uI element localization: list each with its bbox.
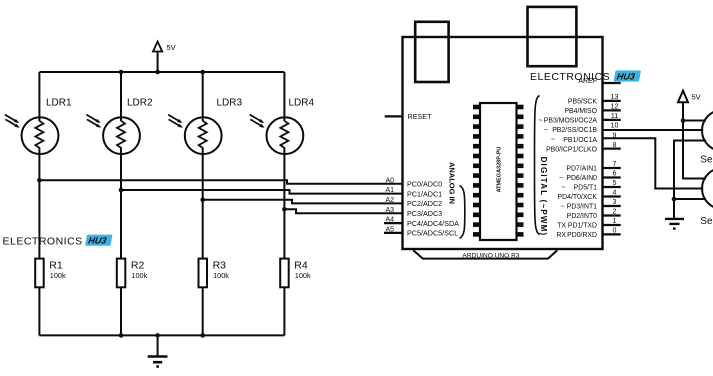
svg-text:PD3/INT1: PD3/INT1: [567, 204, 597, 211]
svg-text:PB1/OC1A: PB1/OC1A: [563, 137, 597, 144]
svg-text:8: 8: [613, 142, 617, 149]
svg-text:DIGITAL (~PWM): DIGITAL (~PWM): [539, 157, 548, 237]
svg-text:ELECTRONICS: ELECTRONICS: [530, 71, 610, 83]
svg-text:4: 4: [613, 190, 617, 197]
svg-text:R1: R1: [49, 260, 63, 272]
svg-text:HU3: HU3: [616, 71, 636, 81]
LDR3: [168, 72, 242, 200]
node junction LDR2/A1: [119, 188, 124, 193]
svg-text:~: ~: [544, 127, 548, 134]
arduino power jack: [528, 7, 577, 66]
watermark electronics hub right: [530, 70, 641, 82]
svg-text:Servo1: Servo1: [700, 155, 713, 166]
arduino U1 body: [403, 37, 603, 249]
svg-text:PD4/T0/XCK: PD4/T0/XCK: [558, 194, 598, 201]
svg-text:PC2/ADC2: PC2/ADC2: [407, 199, 442, 208]
svg-text:LDR2: LDR2: [127, 98, 153, 109]
svg-text:~: ~: [551, 137, 555, 144]
node junction top rail 5V: [155, 70, 160, 75]
svg-text:Servo2: Servo2: [700, 216, 713, 227]
digital bracket: [534, 96, 539, 235]
IC U2 ATMEGA328P-PU: [473, 103, 524, 240]
node junction bottom rail R2: [119, 333, 124, 338]
svg-text:2: 2: [613, 209, 617, 216]
svg-text:R2: R2: [131, 260, 145, 272]
servo motor 2: [702, 168, 713, 209]
svg-text:~: ~: [538, 117, 542, 124]
svg-text:PB5/SCK: PB5/SCK: [568, 99, 598, 106]
node junction LDR4/A3: [282, 207, 287, 212]
svg-text:13: 13: [611, 94, 619, 101]
wire top 5V rail: [39, 71, 284, 73]
node junction servo1 5V: [681, 118, 686, 123]
svg-text:7: 7: [613, 161, 617, 168]
svg-text:PD5/T1: PD5/T1: [574, 185, 598, 192]
node junction bottom rail gnd: [155, 333, 160, 338]
arduino usb connector: [415, 22, 448, 82]
digital pin labels: [538, 99, 597, 240]
svg-text:PD2/INT0: PD2/INT0: [567, 213, 597, 220]
node junction top rail LDR2: [119, 70, 124, 75]
svg-text:100k: 100k: [213, 271, 229, 280]
wire servo1 gnd pin: [674, 141, 706, 219]
svg-text:PB4/MISO: PB4/MISO: [564, 108, 597, 115]
svg-text:PC1/ADC1: PC1/ADC1: [407, 189, 442, 198]
svg-text:1: 1: [613, 218, 617, 225]
resistor R3 100k: [199, 200, 230, 336]
wire pin9 to servo2: [603, 138, 704, 188]
svg-text:PD6/AIN0: PD6/AIN0: [566, 175, 597, 182]
svg-text:5V: 5V: [167, 43, 176, 52]
wire bottom ground rail: [39, 334, 284, 336]
digital pin stubs and numbers: [603, 101, 621, 235]
pin RESET: [385, 112, 432, 121]
svg-text:~: ~: [559, 175, 563, 182]
wire LDR3 to pin A2: [203, 200, 403, 204]
svg-text:A4: A4: [385, 217, 394, 224]
LDR1: [5, 72, 72, 180]
wire 5V to servo1 vcc pin: [683, 120, 706, 122]
svg-text:LDR4: LDR4: [289, 98, 315, 109]
svg-text:A0: A0: [385, 177, 394, 184]
svg-text:A2: A2: [385, 197, 394, 204]
node junction LDR3/A2: [200, 197, 205, 202]
wire servo2 gnd pin: [674, 198, 706, 200]
resistor R1 100k: [35, 180, 66, 335]
svg-text:A1: A1: [385, 187, 394, 194]
LDR4: [250, 72, 315, 209]
svg-text:100k: 100k: [131, 271, 147, 280]
svg-text:ARDUINO UNO R3: ARDUINO UNO R3: [462, 252, 519, 259]
watermark electronics hub left: [3, 235, 113, 248]
pin A4 stub: [384, 222, 403, 224]
wire LDR4 to pin A3: [284, 209, 402, 213]
svg-text:11: 11: [611, 113, 618, 120]
wire 5V down to servo2 vcc pin: [683, 121, 706, 179]
svg-text:PB2/SS/OC1B: PB2/SS/OC1B: [552, 127, 597, 134]
svg-text:PB3/MOSI/OC2A: PB3/MOSI/OC2A: [544, 118, 598, 125]
svg-text:RX: RX: [556, 232, 566, 239]
node junction top rail LDR3: [200, 70, 205, 75]
analog bracket: [460, 186, 465, 239]
svg-text:12: 12: [611, 104, 619, 111]
svg-text:100k: 100k: [295, 271, 311, 280]
svg-text:5V: 5V: [692, 93, 701, 102]
svg-text:HU3: HU3: [88, 236, 108, 246]
node junction servo2 gnd: [672, 197, 677, 202]
power 5V supply left: [153, 42, 176, 73]
svg-text:~: ~: [560, 204, 564, 211]
svg-text:TX: TX: [557, 223, 566, 230]
svg-text:ELECTRONICS: ELECTRONICS: [3, 236, 83, 248]
svg-text:5: 5: [613, 180, 617, 187]
svg-text:PD1/TXD: PD1/TXD: [568, 223, 597, 230]
arduino bottom label plate: [413, 250, 557, 258]
ground right: [665, 219, 684, 229]
svg-text:PB0/ICP1/CLKO: PB0/ICP1/CLKO: [546, 146, 598, 153]
servo motor 1: [702, 110, 713, 151]
svg-text:R3: R3: [213, 260, 227, 272]
svg-text:~: ~: [561, 185, 565, 192]
svg-text:PD7/AIN1: PD7/AIN1: [566, 166, 597, 173]
resistor R4 100k: [280, 209, 311, 335]
svg-text:ATMEGA328P-PU: ATMEGA328P-PU: [497, 147, 503, 193]
wire LDR1 to pin A0: [39, 180, 402, 184]
svg-text:3: 3: [613, 199, 617, 206]
svg-text:0: 0: [613, 228, 617, 235]
LDR2: [86, 72, 153, 190]
svg-text:R4: R4: [294, 260, 308, 272]
wire pin10 to servo1: [603, 129, 704, 131]
svg-text:A3: A3: [385, 207, 394, 214]
svg-text:ANALOG IN: ANALOG IN: [447, 162, 456, 204]
svg-text:RESET: RESET: [408, 112, 433, 121]
pin labels A0-A5: [385, 177, 394, 233]
power 5V supply right: [678, 91, 701, 121]
svg-text:PC4/ADC4/SDA: PC4/ADC4/SDA: [407, 219, 459, 228]
svg-text:PC0/ADC0: PC0/ADC0: [407, 180, 442, 189]
svg-text:PC5/ADC5/SCL: PC5/ADC5/SCL: [407, 229, 458, 238]
svg-text:6: 6: [613, 171, 617, 178]
node junction LDR1/A0: [37, 178, 42, 183]
svg-text:LDR3: LDR3: [217, 98, 243, 109]
svg-text:A5: A5: [385, 227, 394, 234]
pin AREF: [578, 78, 620, 85]
svg-text:PD0/RXD: PD0/RXD: [567, 232, 597, 239]
node junction bottom rail R3: [200, 333, 205, 338]
svg-text:10: 10: [611, 123, 619, 130]
svg-text:100k: 100k: [50, 271, 66, 280]
wire LDR2 to pin A1: [121, 190, 403, 194]
ground left: [148, 335, 168, 366]
svg-text:LDR1: LDR1: [46, 98, 72, 109]
svg-text:PC3/ADC3: PC3/ADC3: [407, 209, 442, 218]
resistor R2 100k: [117, 190, 148, 335]
pin A5 stub: [384, 232, 403, 234]
analog pin labels: [407, 180, 459, 238]
